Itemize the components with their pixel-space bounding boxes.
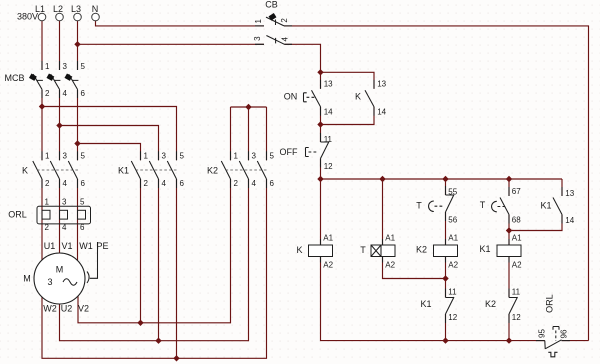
MCB pole 5-6 bbox=[64, 61, 78, 98]
svg-text:A1: A1 bbox=[448, 233, 458, 242]
wire L1 MCB output down to contactor K pole 1 bbox=[41, 90, 43, 160]
svg-text:11: 11 bbox=[512, 287, 521, 296]
svg-text:A1: A1 bbox=[323, 233, 333, 242]
wire K pole 4 through ORL to motor V1 bbox=[59, 179, 61, 255]
svg-text:U1: U1 bbox=[44, 241, 56, 251]
K aux NO contact 13-14 bbox=[365, 80, 374, 116]
svg-text:2: 2 bbox=[234, 179, 239, 188]
coil K2 bbox=[434, 239, 458, 263]
svg-text:14: 14 bbox=[324, 107, 333, 116]
contactor K1 linkage bbox=[136, 169, 178, 171]
wire K aux 14 join to ON output bbox=[321, 107, 375, 125]
CB pole 3-4 bbox=[255, 36, 292, 45]
wire motor U2 to K1 pole 4 and K2 pole 3 bbox=[60, 179, 249, 341]
ORL heater element pole 2 bbox=[60, 210, 68, 219]
svg-text:K1: K1 bbox=[540, 200, 551, 210]
svg-text:3: 3 bbox=[162, 152, 167, 161]
contactor K1 pole 3-4 bbox=[149, 151, 158, 188]
wire coil K A2 down to bottom rail to ORL 95 bbox=[321, 257, 545, 341]
wire K pole 6 through ORL to motor W1 bbox=[77, 179, 79, 262]
svg-text:3: 3 bbox=[47, 277, 52, 287]
svg-text:1: 1 bbox=[45, 152, 50, 161]
svg-text:K1: K1 bbox=[420, 299, 431, 309]
terminal L2 bbox=[56, 13, 64, 21]
svg-text:6: 6 bbox=[270, 179, 275, 188]
svg-text:6: 6 bbox=[180, 179, 185, 188]
svg-text:5: 5 bbox=[80, 197, 85, 206]
wire K1 NC contact 12 to bottom rail bbox=[445, 314, 447, 341]
junction node rail at T67 bbox=[506, 176, 512, 182]
svg-text:T: T bbox=[360, 245, 366, 255]
ORL heater element pole 1 bbox=[42, 210, 50, 219]
contactor K linkage bbox=[37, 169, 79, 171]
svg-text:4: 4 bbox=[63, 89, 68, 98]
svg-text:K: K bbox=[355, 91, 361, 101]
junction node bottom rail K2 branch bbox=[442, 337, 448, 343]
wire K2 pole 1 top bbox=[230, 107, 232, 160]
contactor K1 pole 5-6 bbox=[167, 151, 176, 188]
svg-text:1: 1 bbox=[254, 19, 263, 24]
svg-text:PE: PE bbox=[96, 241, 108, 251]
svg-text:96: 96 bbox=[560, 329, 569, 338]
contactor K2 pole 5-6 bbox=[257, 151, 266, 188]
svg-text:W2: W2 bbox=[43, 303, 57, 313]
svg-text:5: 5 bbox=[270, 152, 275, 161]
PE wire and frame connection bbox=[87, 242, 98, 283]
contactor K2 pole 3-4 bbox=[239, 151, 248, 188]
junction node U2 line K1 pole4 bbox=[155, 338, 161, 344]
svg-text:55: 55 bbox=[448, 188, 457, 197]
svg-text:68: 68 bbox=[512, 215, 521, 224]
svg-text:V1: V1 bbox=[61, 241, 72, 251]
terminal N bbox=[92, 13, 100, 21]
motor M 3~ bbox=[34, 253, 85, 304]
wire ON button top stub bbox=[320, 72, 322, 89]
svg-text:6: 6 bbox=[81, 179, 86, 188]
wire ORL 96 to right edge bbox=[562, 340, 589, 342]
junction node W2 line K1 pole6 bbox=[173, 355, 179, 361]
svg-text:14: 14 bbox=[377, 107, 386, 116]
wire control rail bbox=[321, 178, 563, 180]
coil K1 bbox=[497, 239, 521, 263]
motor sine symbol bbox=[63, 279, 77, 286]
svg-text:N: N bbox=[92, 4, 99, 14]
junction node V2 line K1 pole2 bbox=[137, 320, 143, 326]
wire K2 coil A2 to K1 NC contact 11 bbox=[445, 257, 447, 298]
wire rail down to timer coil T A1 bbox=[382, 179, 384, 245]
contactor K2 linkage bbox=[226, 169, 268, 171]
svg-text:1: 1 bbox=[45, 197, 50, 206]
timer T NC delayed contact 55-56 bbox=[429, 186, 454, 221]
junction node rail at K coil bbox=[317, 176, 323, 182]
svg-text:L1: L1 bbox=[35, 4, 45, 14]
wire CB pole 4 output down to control node bbox=[284, 44, 320, 72]
OFF pushbutton NC contact 11-12 bbox=[306, 133, 330, 168]
svg-text:5: 5 bbox=[180, 152, 185, 161]
terminal L1 bbox=[38, 13, 46, 21]
junction node T A2 K2 A2 bbox=[442, 275, 448, 281]
wire K pole 2 through ORL to motor U1 bbox=[41, 179, 43, 262]
MCB pole 3-4 bbox=[46, 61, 60, 98]
svg-text:ORL: ORL bbox=[8, 210, 27, 220]
junction node bottom rail K1 branch bbox=[506, 337, 512, 343]
svg-text:U2: U2 bbox=[61, 303, 73, 313]
svg-text:3: 3 bbox=[63, 62, 68, 71]
wire motor W2 to K1 pole 6 and K2 pole 5 bbox=[42, 179, 267, 358]
wire L2 branch to contactor K1 pole 3 bbox=[60, 126, 159, 161]
contactor K pole 5-6 bbox=[68, 151, 77, 188]
contactor K1 pole 1-2 bbox=[131, 151, 140, 188]
svg-text:3: 3 bbox=[63, 152, 68, 161]
svg-text:11: 11 bbox=[324, 135, 333, 144]
contactor K pole 1-2 bbox=[33, 151, 42, 188]
ORL thermal overload body bbox=[37, 206, 91, 224]
ON pushbutton NO contact 13-14 bbox=[304, 80, 321, 116]
svg-text:2: 2 bbox=[45, 179, 50, 188]
svg-text:14: 14 bbox=[565, 216, 574, 225]
wire N from terminal to CB pole 1 bbox=[96, 21, 265, 26]
svg-text:T: T bbox=[416, 201, 422, 211]
wire timer contact 56 to K2 coil A1 bbox=[445, 212, 447, 245]
K1 NC interlock contact 11-12 bbox=[446, 289, 455, 324]
wire L2 phase from terminal to MCB bbox=[59, 21, 61, 70]
wire L2 MCB output down to contactor K pole 3 bbox=[59, 90, 61, 160]
svg-text:K1: K1 bbox=[118, 165, 129, 175]
wire motor V2 to K1 pole 2 and K2 pole 1 bbox=[78, 179, 231, 323]
junction node L1 branch bbox=[39, 103, 45, 109]
junction node rail at T55 bbox=[442, 176, 448, 182]
wire L1 phase from terminal to MCB bbox=[41, 21, 43, 70]
svg-text:A1: A1 bbox=[512, 233, 522, 242]
K1 aux NO contact 13-14 right branch bbox=[553, 187, 562, 224]
junction node L3-CB bbox=[74, 41, 80, 47]
junction node control top bbox=[317, 69, 323, 75]
svg-text:K: K bbox=[296, 245, 302, 255]
svg-text:2: 2 bbox=[280, 18, 289, 23]
wire rail to K1 aux contact 13 bbox=[561, 179, 563, 196]
svg-text:95: 95 bbox=[537, 329, 546, 338]
wire K1 aux 14 back to K1 coil feed bbox=[509, 215, 562, 231]
wire K1 pole 2 down bbox=[140, 179, 142, 323]
junction node L2 branch bbox=[56, 122, 62, 128]
svg-text:K2: K2 bbox=[207, 165, 218, 175]
svg-text:K2: K2 bbox=[485, 299, 496, 309]
wire L1 branch to contactor K1 pole 5 bbox=[42, 107, 177, 161]
timer T NO delayed contact 67-68 bbox=[492, 187, 509, 224]
svg-text:4: 4 bbox=[280, 37, 289, 42]
svg-text:1: 1 bbox=[45, 62, 50, 71]
svg-text:W1: W1 bbox=[79, 241, 93, 251]
svg-text:4: 4 bbox=[252, 179, 257, 188]
wire control node to K aux branch bbox=[321, 72, 375, 89]
svg-text:3: 3 bbox=[62, 197, 67, 206]
svg-text:K1: K1 bbox=[479, 244, 490, 254]
svg-text:A2: A2 bbox=[448, 260, 458, 269]
svg-text:V2: V2 bbox=[78, 303, 89, 313]
svg-text:A2: A2 bbox=[323, 260, 333, 269]
ORL heater element pole 3 bbox=[78, 210, 86, 219]
wire K2 pole 3 top bbox=[248, 107, 250, 160]
wire K1 pole 6 down bbox=[176, 179, 178, 358]
svg-text:OFF: OFF bbox=[280, 147, 298, 157]
svg-text:56: 56 bbox=[448, 215, 457, 224]
svg-text:2: 2 bbox=[45, 89, 50, 98]
timer coil T bbox=[371, 239, 395, 263]
K2 NC interlock contact 11-12 bbox=[509, 289, 518, 324]
svg-text:K: K bbox=[22, 165, 28, 175]
terminal L3 bbox=[74, 13, 82, 21]
svg-text:A1: A1 bbox=[385, 233, 395, 242]
CB pole 1-2 bbox=[255, 13, 292, 26]
svg-text:4: 4 bbox=[162, 179, 167, 188]
wire rail down to coil K A1 bbox=[320, 179, 322, 245]
svg-text:12: 12 bbox=[324, 162, 333, 171]
svg-text:M: M bbox=[56, 265, 64, 275]
svg-text:12: 12 bbox=[512, 313, 521, 322]
svg-text:11: 11 bbox=[448, 287, 457, 296]
wire K2 pole 5 top bbox=[266, 107, 268, 160]
wire rail down to timer contact 55 bbox=[445, 179, 447, 195]
svg-text:T: T bbox=[480, 200, 486, 210]
MCB pole 1-2 bbox=[29, 61, 43, 98]
wire L3 branch to CB pole 3 bbox=[78, 43, 265, 45]
svg-text:ON: ON bbox=[284, 91, 298, 101]
wire ON button output to OFF button bbox=[320, 107, 322, 142]
svg-text:ORL: ORL bbox=[544, 294, 554, 313]
svg-text:CB: CB bbox=[265, 0, 278, 10]
wire L3 branch to contactor K1 pole 1 bbox=[78, 144, 141, 161]
svg-text:L3: L3 bbox=[71, 4, 81, 14]
svg-text:A2: A2 bbox=[512, 260, 522, 269]
svg-text:13: 13 bbox=[377, 80, 386, 89]
svg-text:M: M bbox=[23, 274, 31, 284]
contactor K2 pole 1-2 bbox=[221, 151, 230, 188]
junction node K1 coil feed bbox=[506, 227, 512, 233]
coil K bbox=[309, 239, 333, 263]
svg-text:13: 13 bbox=[324, 80, 333, 89]
svg-text:2: 2 bbox=[144, 179, 149, 188]
wire OFF output down to control rail bbox=[320, 159, 322, 180]
wire L3 MCB output down to contactor K pole 5 bbox=[77, 90, 79, 160]
svg-text:67: 67 bbox=[512, 187, 521, 196]
svg-text:5: 5 bbox=[81, 62, 86, 71]
svg-text:L2: L2 bbox=[53, 4, 63, 14]
wire K2 NC contact 12 to bottom rail bbox=[508, 314, 510, 341]
junction node K2 bridge bbox=[245, 104, 251, 110]
svg-text:12: 12 bbox=[448, 313, 457, 322]
svg-text:13: 13 bbox=[565, 189, 574, 198]
svg-text:MCB: MCB bbox=[5, 73, 25, 83]
junction node L3 branch bbox=[74, 140, 80, 146]
svg-text:1: 1 bbox=[234, 152, 239, 161]
wire timer contact 68 to K1 coil A1 bbox=[508, 215, 510, 246]
contactor K pole 3-4 bbox=[50, 151, 59, 188]
svg-text:4: 4 bbox=[63, 179, 68, 188]
wire K1 coil A2 to K2 NC contact 11 bbox=[508, 257, 510, 298]
wire rail down to timer contact 67 bbox=[508, 179, 510, 196]
svg-text:K2: K2 bbox=[416, 244, 427, 254]
svg-text:1: 1 bbox=[144, 152, 149, 161]
svg-text:A2: A2 bbox=[385, 260, 395, 269]
svg-text:2: 2 bbox=[45, 223, 50, 232]
svg-text:4: 4 bbox=[62, 223, 67, 232]
wire K1 pole 4 down bbox=[158, 179, 160, 341]
svg-text:6: 6 bbox=[81, 89, 86, 98]
junction node ON-K join bbox=[317, 121, 323, 127]
svg-text:6: 6 bbox=[80, 223, 85, 232]
junction node rail at T coil bbox=[379, 176, 385, 182]
svg-text:3: 3 bbox=[252, 152, 257, 161]
svg-text:5: 5 bbox=[81, 152, 86, 161]
ORL NC trip contact 95-96 bbox=[536, 327, 570, 357]
svg-text:3: 3 bbox=[253, 36, 262, 41]
wire CB pole 2 output to right edge and down to ORL 96 bbox=[284, 26, 589, 341]
wire K2 star bridge bbox=[231, 106, 267, 108]
wire timer coil T A2 to K2 coil branch bbox=[383, 257, 446, 279]
wire L3 phase from terminal to MCB bbox=[77, 21, 79, 70]
